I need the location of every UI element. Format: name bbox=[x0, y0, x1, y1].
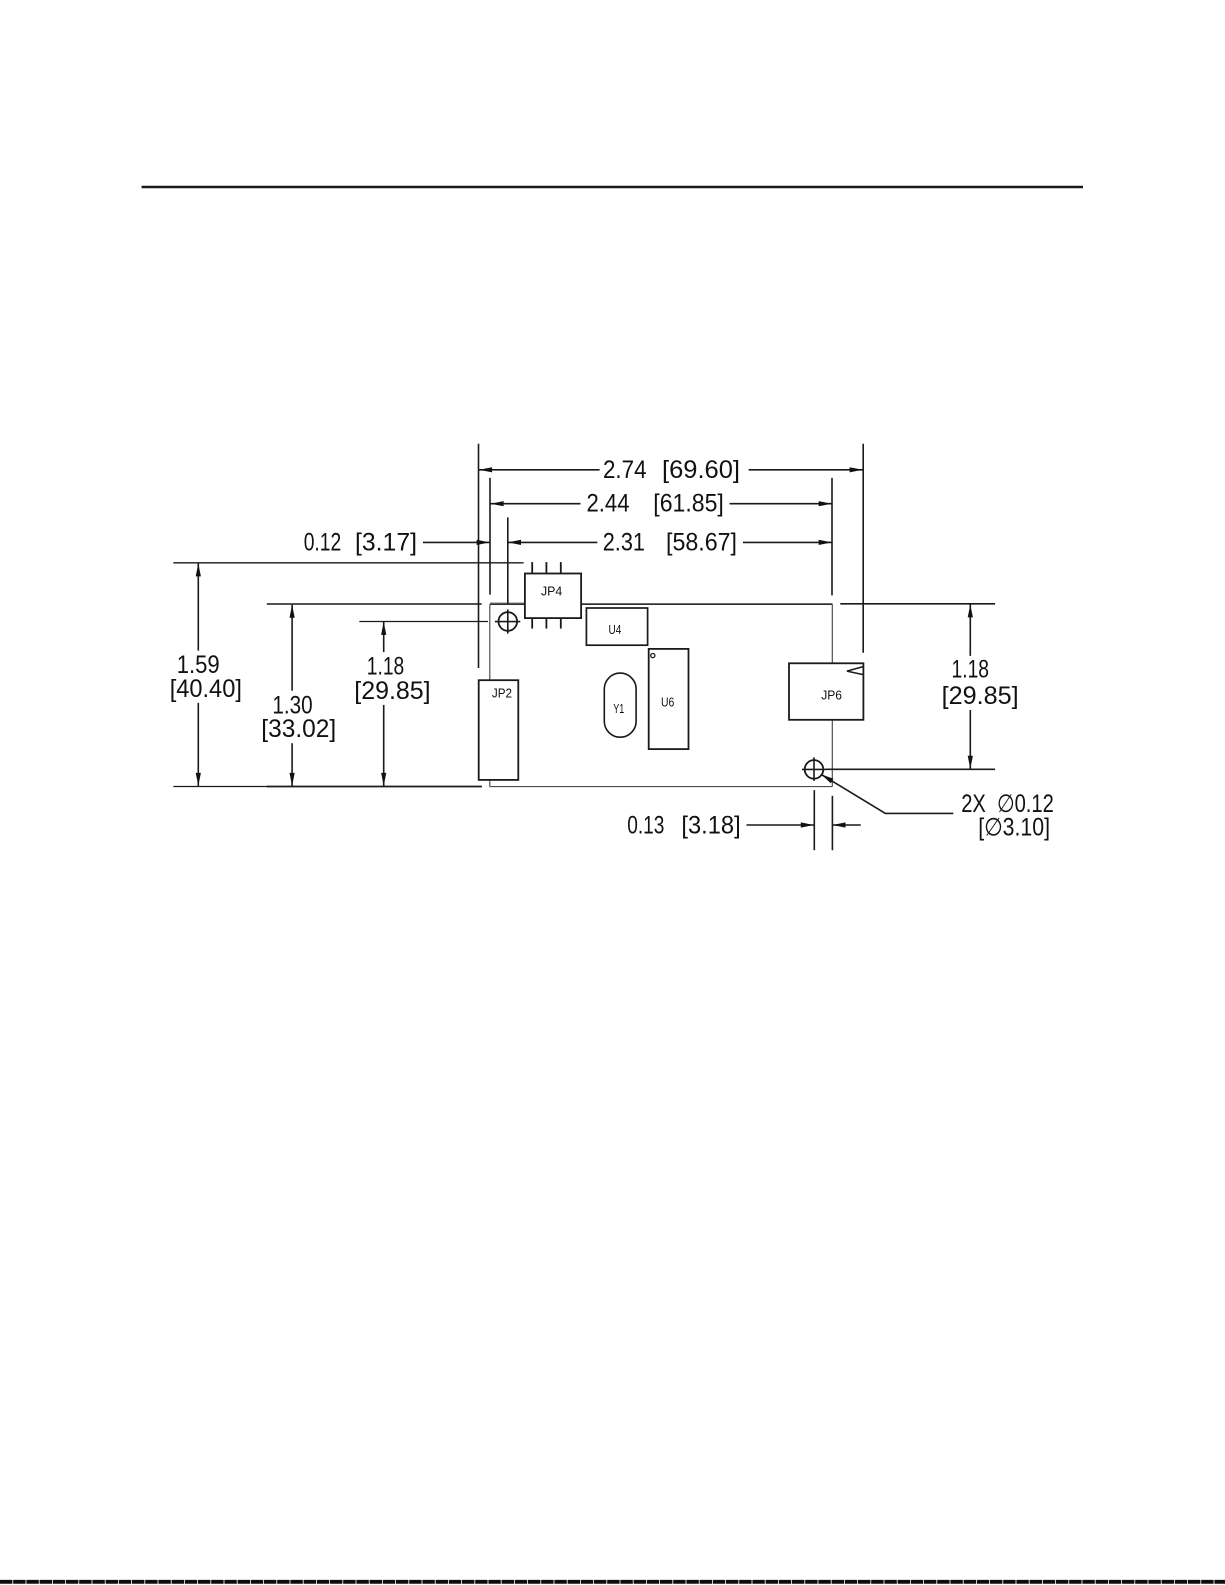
arrow 0.13 right bbox=[833, 822, 846, 827]
svg-text:2.74: 2.74 bbox=[603, 457, 647, 484]
pcb outline top edge bbox=[490, 603, 832, 605]
extension line 2.44 left bbox=[489, 478, 491, 595]
extension line 2.74 right bbox=[862, 444, 864, 653]
svg-text:[33.02]: [33.02] bbox=[261, 716, 336, 743]
dimension line 2.44 bbox=[491, 503, 581, 505]
top rule bbox=[142, 186, 1083, 188]
arrow 1.59 down bbox=[196, 773, 201, 786]
svg-text:2.31: 2.31 bbox=[603, 529, 645, 556]
arrow leader 2X bbox=[821, 774, 833, 783]
connector JP2 bbox=[479, 680, 519, 780]
hole H2 bbox=[805, 760, 824, 779]
svg-text:0.13: 0.13 bbox=[627, 812, 664, 839]
svg-text:[∅3.10]: [∅3.10] bbox=[978, 815, 1050, 842]
dimension line 1.18 left bbox=[383, 622, 385, 652]
svg-text:1.18: 1.18 bbox=[952, 657, 990, 684]
components bbox=[479, 562, 864, 780]
extension line 1.18 right top bbox=[840, 603, 995, 605]
arrowheads bbox=[196, 467, 973, 827]
dimension line 2.31 bbox=[508, 541, 597, 543]
arrow 1.18R up bbox=[968, 604, 973, 617]
crystal Y1 bbox=[604, 673, 636, 737]
svg-text:[58.67]: [58.67] bbox=[666, 529, 737, 556]
arrow 2.44 right bbox=[819, 501, 832, 506]
extension line 2.44 right bbox=[831, 478, 833, 596]
leader 2X dia bbox=[821, 774, 953, 813]
dimension line 1.59 bbox=[197, 563, 199, 650]
dimension text bbox=[170, 457, 1054, 842]
dimension line 0.12 bbox=[423, 541, 490, 543]
extension line 0.13 right bbox=[831, 796, 833, 850]
ic U6 bbox=[649, 649, 689, 749]
svg-text:2.44: 2.44 bbox=[587, 491, 630, 518]
arrow 1.18R down bbox=[968, 756, 973, 769]
dimension line 2.74 bbox=[479, 469, 600, 471]
svg-text:[61.85]: [61.85] bbox=[653, 491, 724, 518]
svg-text:[29.85]: [29.85] bbox=[942, 683, 1019, 710]
dimension line 1.18 right bbox=[969, 604, 971, 656]
dimension line 0.13 bbox=[747, 824, 814, 826]
ic U4 bbox=[586, 608, 647, 645]
arrow 0.13 left bbox=[801, 822, 814, 827]
arrow 1.18L down bbox=[381, 773, 386, 786]
extension line 1.59 top bbox=[173, 562, 523, 564]
svg-text:U4: U4 bbox=[609, 622, 622, 637]
svg-text:JP4: JP4 bbox=[541, 583, 562, 598]
bottom rule bbox=[0, 1580, 1225, 1584]
svg-text:Y1: Y1 bbox=[613, 701, 624, 716]
svg-text:[69.60]: [69.60] bbox=[662, 457, 740, 484]
extension line 2.31 left bbox=[507, 517, 509, 604]
pcb outline left edge bbox=[489, 604, 491, 787]
svg-text:[3.18]: [3.18] bbox=[681, 812, 740, 839]
extension line bottom left bbox=[173, 786, 268, 788]
arrow 0.12 bbox=[477, 540, 490, 545]
hole H1 bbox=[499, 612, 518, 631]
svg-text:[3.17]: [3.17] bbox=[355, 530, 417, 557]
arrow 2.44 left bbox=[491, 501, 504, 506]
arrow 1.18L up bbox=[381, 622, 386, 635]
svg-text:U6: U6 bbox=[661, 695, 674, 710]
pin1 dot U6 bbox=[651, 654, 655, 658]
svg-text:JP6: JP6 bbox=[821, 687, 842, 702]
connector JP4 bbox=[532, 562, 561, 629]
svg-text:JP2: JP2 bbox=[492, 686, 512, 701]
svg-text:0.12: 0.12 bbox=[304, 530, 342, 557]
component labels bbox=[492, 583, 842, 715]
arrow 2.74 right bbox=[850, 467, 863, 472]
pin1 marker JP6 bbox=[847, 667, 863, 675]
connector JP6 bbox=[789, 663, 863, 720]
pcb outline right edge bbox=[831, 604, 833, 787]
svg-text:1.18: 1.18 bbox=[367, 654, 404, 681]
dimension line 1.30 bbox=[291, 605, 293, 691]
extension line 2.74 left bbox=[478, 444, 480, 668]
arrow 2.31 right bbox=[819, 540, 832, 545]
arrow 1.59 up bbox=[196, 563, 201, 576]
extension line 0.13 left bbox=[813, 790, 815, 850]
arrow 2.74 left bbox=[479, 467, 492, 472]
svg-text:[29.85]: [29.85] bbox=[354, 678, 430, 705]
extension line 1.18 left bbox=[359, 621, 488, 623]
arrow 1.30 down bbox=[290, 773, 295, 786]
arrow 1.30 up bbox=[290, 605, 295, 618]
pcb outline bottom edge bbox=[490, 786, 833, 788]
arrow 2.31 left bbox=[508, 540, 521, 545]
svg-text:[40.40]: [40.40] bbox=[170, 676, 242, 703]
extension line 1.18 right bottom bbox=[826, 768, 995, 770]
extension line 1.30 top bbox=[267, 603, 482, 605]
